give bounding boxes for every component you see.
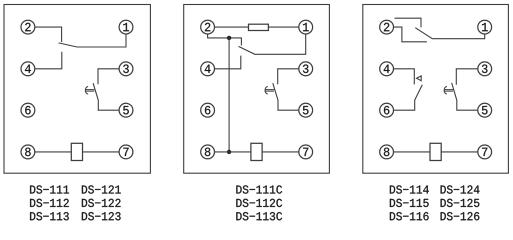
coil (box 2) — [251, 143, 262, 160]
contact blade to terminal 1 — [415, 28, 484, 39]
terminal 7 (box 1) — [119, 145, 133, 159]
terminal 1 (box 3) — [478, 20, 492, 34]
wire resistor to terminal 1 — [268, 26, 299, 28]
model label DS-121 DS-122 DS-123 — [82, 185, 121, 220]
terminal 7 (box 2) — [299, 145, 313, 159]
terminal 8 (box 3) — [380, 145, 394, 159]
terminal 3 (box 3) — [478, 62, 492, 76]
wire from terminal 4 fixed contact — [394, 69, 415, 85]
box 1 outline — [4, 5, 150, 174]
terminal 5 (box 1) — [119, 103, 133, 117]
wire from terminal 5 with contact blade — [452, 83, 478, 110]
terminal 4 (box 3) — [380, 62, 394, 76]
terminal 3 (box 1) — [119, 62, 133, 76]
wire terminal 8 to coil — [35, 151, 72, 153]
model label DS-111C DS-112C DS-113C — [236, 185, 282, 220]
terminal 4 (box 2) — [201, 62, 215, 76]
terminal 5 (box 3) — [478, 103, 492, 117]
terminal 6 (box 3) — [380, 103, 394, 117]
wire from terminal 2 lower bar — [394, 27, 427, 42]
terminal 5 (box 2) — [299, 103, 313, 117]
vertical bus wire — [228, 38, 230, 152]
model label DS-124 DS-125 DS-126 — [441, 185, 480, 220]
wire coil to terminal 7 — [262, 151, 299, 153]
contact blade K1-1 to terminal 1 — [59, 34, 126, 47]
actuator arrow — [444, 86, 453, 94]
wire from terminal 5 with contact blade — [273, 83, 299, 110]
terminal 1 (box 2) — [299, 20, 313, 34]
wire from terminal 4 — [215, 56, 241, 69]
wire from terminal 5 with contact blade — [93, 83, 119, 110]
wire terminal 2 to resistor — [215, 26, 249, 28]
wire terminal 8 to coil — [394, 151, 431, 153]
wire coil to terminal 7 — [441, 151, 478, 153]
terminal 2 (box 2) — [201, 20, 215, 34]
terminal 8 (box 1) — [21, 145, 35, 159]
actuator arrow — [85, 86, 94, 94]
terminal 6 (box 2) — [201, 103, 215, 117]
junction dot (top) — [227, 36, 231, 40]
junction dot (bottom) — [227, 150, 231, 154]
terminal 2 (box 3) — [380, 20, 394, 34]
model label DS-114 DS-115 DS-116 — [390, 185, 429, 220]
terminal 4 (box 1) — [21, 62, 35, 76]
contact blade to terminal 1 — [239, 34, 306, 54]
coil (box 1) — [71, 143, 82, 160]
wire from terminal 3 — [456, 69, 478, 85]
coil (box 3) — [430, 143, 441, 160]
resistor R — [249, 24, 269, 30]
box 2 outline — [184, 5, 330, 174]
box 3 outline — [363, 5, 509, 174]
wire terminal 2 to fixed contact — [35, 27, 62, 42]
fixed contact top bar — [395, 18, 422, 27]
model label DS-111 DS-112 DS-113 — [30, 185, 69, 220]
wire branch from terminal 2 to fixed contact — [208, 34, 242, 46]
wire from terminal 3 — [278, 69, 299, 85]
wire from terminal 6 with contact blade — [394, 85, 423, 110]
wire from terminal 4 — [35, 52, 62, 69]
actuator arrow — [265, 86, 274, 94]
wire coil to terminal 7 — [83, 151, 120, 153]
terminal 1 (box 1) — [119, 20, 133, 34]
terminal 7 (box 3) — [478, 145, 492, 159]
terminal 3 (box 2) — [299, 62, 313, 76]
wire from terminal 3 — [98, 69, 119, 85]
moving contact triangle — [417, 76, 422, 81]
wire terminal 8 to coil — [215, 151, 251, 153]
terminal 8 (box 2) — [201, 145, 215, 159]
terminal 6 (box 1) — [21, 103, 35, 117]
terminal 2 (box 1) — [21, 20, 35, 34]
